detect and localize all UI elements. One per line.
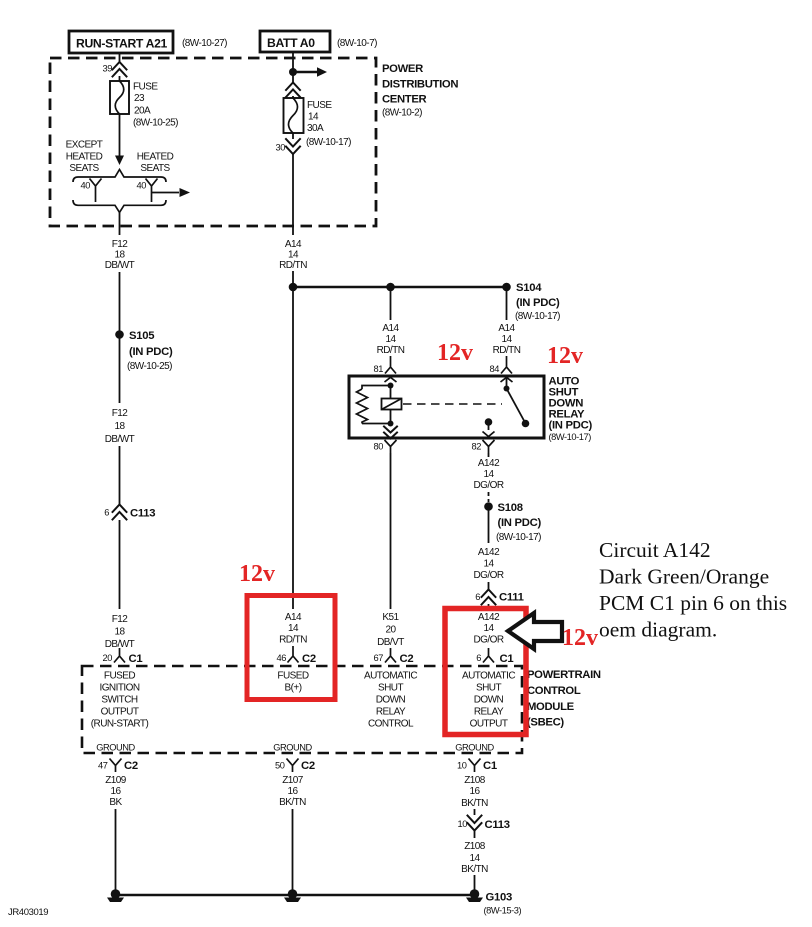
svg-text:10: 10 xyxy=(457,761,467,771)
svg-text:BATT A0: BATT A0 xyxy=(267,36,315,50)
svg-text:DOWN: DOWN xyxy=(474,695,504,706)
svg-text:RELAY: RELAY xyxy=(376,707,406,718)
pcm ground pin 50 C2 xyxy=(275,759,315,773)
pcm pin 67 C2 xyxy=(374,648,414,665)
svg-text:30A: 30A xyxy=(307,123,324,134)
svg-text:(SBEC): (SBEC) xyxy=(527,717,564,729)
fuse 14 xyxy=(284,98,352,148)
A142 wire label xyxy=(473,458,503,491)
svg-text:14: 14 xyxy=(483,469,494,480)
svg-text:(8W-10-25): (8W-10-25) xyxy=(127,361,172,372)
svg-text:C1: C1 xyxy=(500,653,514,665)
power distribution center dashed box xyxy=(50,58,458,226)
svg-text:40: 40 xyxy=(137,181,147,191)
resistor zigzag xyxy=(357,389,368,424)
svg-text:16: 16 xyxy=(110,786,121,797)
svg-text:SHUT: SHUT xyxy=(378,683,403,694)
svg-text:6: 6 xyxy=(104,508,109,518)
svg-text:GROUND: GROUND xyxy=(273,743,312,753)
svg-text:6: 6 xyxy=(475,592,480,602)
pcm pin 6 C1 xyxy=(476,648,513,665)
relay name label xyxy=(549,376,593,443)
ground wire col2 xyxy=(292,809,294,895)
resistor branch bottom wire xyxy=(362,423,391,425)
wire batt col down to pcm xyxy=(292,287,294,609)
connector C113 pin 6 xyxy=(104,505,155,520)
svg-text:16: 16 xyxy=(287,786,298,797)
svg-text:C2: C2 xyxy=(400,653,414,665)
svg-text:10: 10 xyxy=(458,819,468,829)
svg-text:F12: F12 xyxy=(112,408,129,419)
svg-text:FUSE: FUSE xyxy=(307,100,332,111)
pcm label col2 xyxy=(277,671,308,694)
svg-text:C113: C113 xyxy=(485,819,510,831)
branch arrow batt xyxy=(293,71,317,73)
svg-text:C111: C111 xyxy=(499,592,524,604)
svg-text:(IN PDC): (IN PDC) xyxy=(516,297,560,309)
ground point mid xyxy=(284,889,301,902)
svg-text:20A: 20A xyxy=(134,106,151,117)
svg-text:HEATED: HEATED xyxy=(66,152,103,163)
wire pin82 down xyxy=(488,453,490,457)
svg-text:20: 20 xyxy=(385,625,396,636)
svg-text:14: 14 xyxy=(483,559,494,570)
svg-text:C113: C113 xyxy=(130,508,155,520)
svg-text:RD/TN: RD/TN xyxy=(377,345,405,356)
svg-text:RELAY: RELAY xyxy=(474,707,504,718)
ground bus wire xyxy=(116,894,475,896)
svg-text:DB/WT: DB/WT xyxy=(105,260,135,271)
svg-text:(RUN-START): (RUN-START) xyxy=(91,719,149,730)
svg-text:CENTER: CENTER xyxy=(382,94,427,106)
pcm label col4 xyxy=(462,671,515,730)
svg-text:(8W-10-7): (8W-10-7) xyxy=(337,38,377,49)
resistor branch top wire xyxy=(362,386,391,390)
svg-text:OUTPUT: OUTPUT xyxy=(101,707,139,718)
svg-text:(8W-10-17): (8W-10-17) xyxy=(306,137,351,148)
pcm dashed box xyxy=(82,666,522,753)
svg-text:23: 23 xyxy=(134,93,145,104)
svg-text:(8W-10-17): (8W-10-17) xyxy=(549,432,592,442)
svg-text:14: 14 xyxy=(308,112,319,123)
pcm label col3 xyxy=(364,671,417,730)
svg-text:S105: S105 xyxy=(129,330,154,342)
svg-text:DB/WT: DB/WT xyxy=(105,434,135,445)
horizontal bus wire xyxy=(293,286,507,288)
relay coil node top xyxy=(388,383,394,389)
svg-text:(8W-10-17): (8W-10-17) xyxy=(496,532,541,543)
svg-text:18: 18 xyxy=(114,421,125,432)
Z107 wire label xyxy=(279,775,306,808)
svg-text:6: 6 xyxy=(476,653,481,663)
svg-text:BK: BK xyxy=(109,797,122,808)
fuse 23 xyxy=(110,81,178,129)
svg-text:K51: K51 xyxy=(382,612,399,623)
svg-text:POWER: POWER xyxy=(382,63,423,75)
wire run-start to pdc xyxy=(119,53,121,62)
ground wire col3 top xyxy=(474,809,476,815)
svg-text:Circuit A142: Circuit A142 xyxy=(599,538,711,562)
svg-text:(8W-10-17): (8W-10-17) xyxy=(515,311,560,322)
svg-text:18: 18 xyxy=(114,627,125,638)
svg-text:GROUND: GROUND xyxy=(96,743,135,753)
svg-text:81: 81 xyxy=(374,364,384,374)
junction dot A xyxy=(289,283,298,292)
svg-text:14: 14 xyxy=(385,334,396,345)
A14 wire label red box xyxy=(279,612,307,646)
svg-text:GROUND: GROUND xyxy=(455,743,494,753)
svg-text:18: 18 xyxy=(114,250,125,261)
svg-text:S108: S108 xyxy=(498,502,523,514)
svg-text:82: 82 xyxy=(472,442,482,452)
svg-text:12v: 12v xyxy=(547,343,583,369)
top brace xyxy=(73,170,166,183)
pcm ground pin 47 C2 xyxy=(98,759,138,773)
A142 wire label 3 xyxy=(473,612,503,646)
svg-text:RD/TN: RD/TN xyxy=(493,345,521,356)
svg-text:S104: S104 xyxy=(516,282,542,294)
wire chevron to fuse xyxy=(119,76,121,81)
A14 wire label xyxy=(279,239,307,271)
svg-text:MODULE: MODULE xyxy=(527,701,575,713)
svg-text:DOWN: DOWN xyxy=(376,695,406,706)
svg-text:oem diagram.: oem diagram. xyxy=(599,618,717,642)
svg-text:F12: F12 xyxy=(112,239,129,250)
connector C113 pin 10 xyxy=(458,816,510,832)
connector box BATT A0 xyxy=(260,31,377,52)
svg-text:C2: C2 xyxy=(302,653,316,665)
pcm name label xyxy=(527,669,601,729)
relay switch common node xyxy=(504,386,510,392)
svg-text:RD/TN: RD/TN xyxy=(279,260,307,271)
wire brace down out of pdc xyxy=(119,212,121,235)
svg-text:(8W-15-3): (8W-15-3) xyxy=(484,906,522,916)
svg-text:46: 46 xyxy=(277,653,287,663)
svg-text:47: 47 xyxy=(98,761,108,771)
connector box RUN-START A21 xyxy=(69,31,227,53)
svg-text:(IN PDC): (IN PDC) xyxy=(129,346,173,358)
connector chevrons batt xyxy=(286,83,300,98)
svg-text:IGNITION: IGNITION xyxy=(99,683,139,694)
svg-text:C2: C2 xyxy=(301,760,315,772)
red annotation box asd output xyxy=(445,609,526,735)
svg-text:POWERTRAIN: POWERTRAIN xyxy=(527,669,601,681)
svg-text:(IN PDC): (IN PDC) xyxy=(549,420,593,432)
pcm pin 46 C2 xyxy=(277,646,316,665)
wire pin80 down xyxy=(390,453,392,609)
svg-text:12v: 12v xyxy=(562,625,598,651)
relay pin81 arrowhead xyxy=(385,377,397,382)
svg-text:B(+): B(+) xyxy=(285,683,302,694)
svg-text:CONTROL: CONTROL xyxy=(368,719,414,730)
Z109 wire label xyxy=(105,775,127,808)
wire bus to relay pin81 xyxy=(390,287,392,320)
F12 wire label xyxy=(105,239,135,271)
svg-text:CONTROL: CONTROL xyxy=(527,685,581,697)
svg-text:DG/OR: DG/OR xyxy=(473,570,503,581)
ground wire col1 xyxy=(115,809,117,895)
svg-text:AUTOMATIC: AUTOMATIC xyxy=(364,671,417,682)
svg-text:SEATS: SEATS xyxy=(140,163,170,174)
relay switch blade xyxy=(507,389,525,422)
svg-text:RD/TN: RD/TN xyxy=(279,635,307,646)
relay pin84 arrowhead xyxy=(501,377,513,382)
relay coil node bottom xyxy=(388,421,394,427)
svg-text:(IN PDC): (IN PDC) xyxy=(498,517,542,529)
svg-text:C2: C2 xyxy=(124,760,138,772)
svg-text:DISTRIBUTION: DISTRIBUTION xyxy=(382,79,458,91)
svg-text:SEATS: SEATS xyxy=(69,163,99,174)
svg-text:67: 67 xyxy=(374,653,384,663)
svg-text:A14: A14 xyxy=(498,323,515,334)
junction dot B xyxy=(386,283,395,292)
relay box xyxy=(349,376,544,438)
svg-text:14: 14 xyxy=(483,623,494,634)
A14 label col4 xyxy=(493,323,521,356)
svg-text:FUSED: FUSED xyxy=(277,671,308,682)
K51 wire label xyxy=(377,612,404,648)
svg-text:HEATED: HEATED xyxy=(137,152,174,163)
svg-text:PCM C1 pin 6 on this: PCM C1 pin 6 on this xyxy=(599,591,787,615)
svg-text:(8W-10-25): (8W-10-25) xyxy=(133,118,178,129)
svg-text:F12: F12 xyxy=(112,614,129,625)
connector chevrons 39 xyxy=(113,62,127,77)
splice S104 xyxy=(502,282,560,322)
wire f12 to s105 xyxy=(119,272,121,403)
svg-text:EXCEPT: EXCEPT xyxy=(66,140,103,151)
svg-text:JR403019: JR403019 xyxy=(8,907,48,918)
svg-text:BK/TN: BK/TN xyxy=(461,798,488,809)
svg-text:20: 20 xyxy=(103,653,113,663)
svg-text:OUTPUT: OUTPUT xyxy=(470,719,508,730)
svg-text:FUSED: FUSED xyxy=(104,671,135,682)
relay pin82 node xyxy=(485,418,493,426)
svg-text:(8W-10-27): (8W-10-27) xyxy=(182,38,227,49)
annotation note text xyxy=(599,538,787,642)
svg-text:A142: A142 xyxy=(478,547,500,558)
A14 label col3 xyxy=(377,323,405,356)
wire bus to relay pin84 xyxy=(506,287,508,320)
ground point left xyxy=(107,889,124,902)
splice S105 xyxy=(115,330,173,372)
splice S108 xyxy=(484,502,541,543)
connector C111 pin 6 xyxy=(475,590,523,605)
svg-text:SHUT: SHUT xyxy=(476,683,501,694)
svg-text:39: 39 xyxy=(103,64,113,74)
Z108 wire label 2 xyxy=(461,841,488,875)
wire to s108 xyxy=(488,492,490,502)
svg-text:50: 50 xyxy=(275,761,285,771)
wire fuse14 down out of pdc xyxy=(292,154,294,235)
Z108 wire label xyxy=(461,775,488,809)
svg-text:DG/OR: DG/OR xyxy=(473,480,503,491)
ground point G103 xyxy=(466,889,521,915)
svg-text:14: 14 xyxy=(288,250,299,261)
svg-text:40: 40 xyxy=(81,181,91,191)
svg-text:FUSE: FUSE xyxy=(133,82,158,93)
svg-text:RUN-START A21: RUN-START A21 xyxy=(76,37,167,51)
svg-text:30: 30 xyxy=(276,143,286,153)
svg-text:G103: G103 xyxy=(486,892,512,904)
svg-text:Z108: Z108 xyxy=(464,841,486,852)
wire batt down xyxy=(292,52,294,83)
F12 wire label 3 xyxy=(105,614,135,650)
svg-text:16: 16 xyxy=(469,786,480,797)
svg-text:SWITCH: SWITCH xyxy=(101,695,137,706)
relay actuation dashed line xyxy=(403,403,502,405)
svg-text:Z108: Z108 xyxy=(464,775,486,786)
svg-text:Dark Green/Orange: Dark Green/Orange xyxy=(599,565,769,589)
pcm label col1 xyxy=(91,671,149,730)
black annotation arrow xyxy=(508,613,562,649)
pcm ground pin 10 C1 xyxy=(457,759,497,773)
wire label to bus xyxy=(292,271,294,287)
svg-text:DB/VT: DB/VT xyxy=(377,637,404,648)
F12 wire label 2 xyxy=(105,408,135,445)
svg-text:A142: A142 xyxy=(478,612,500,623)
svg-text:14: 14 xyxy=(469,853,480,864)
svg-text:C1: C1 xyxy=(129,653,143,665)
svg-text:12v: 12v xyxy=(239,561,275,587)
svg-text:80: 80 xyxy=(374,442,384,452)
svg-text:12v: 12v xyxy=(437,340,473,366)
svg-text:C1: C1 xyxy=(483,760,497,772)
relay coil element xyxy=(382,386,402,424)
svg-text:(8W-10-2): (8W-10-2) xyxy=(382,108,422,119)
svg-text:AUTOMATIC: AUTOMATIC xyxy=(462,671,515,682)
svg-text:BK/TN: BK/TN xyxy=(279,797,306,808)
branch arrow right xyxy=(152,192,180,194)
junction dot batt xyxy=(289,68,297,76)
wire to C113 xyxy=(119,446,121,504)
svg-text:14: 14 xyxy=(501,334,512,345)
wire c113 down xyxy=(119,520,121,609)
A142 wire label 2 xyxy=(473,547,503,581)
svg-text:A14: A14 xyxy=(382,323,399,334)
pcm pin 20 C1 xyxy=(103,648,143,665)
svg-text:84: 84 xyxy=(490,364,500,374)
relay pin80 chevrons down xyxy=(390,424,392,427)
svg-text:Z109: Z109 xyxy=(105,775,127,786)
svg-text:14: 14 xyxy=(288,623,299,634)
svg-text:A14: A14 xyxy=(285,612,302,623)
svg-text:DG/OR: DG/OR xyxy=(473,635,503,646)
bottom brace xyxy=(73,200,166,212)
svg-text:A142: A142 xyxy=(478,458,500,469)
red annotation box fused B+ xyxy=(247,596,335,700)
svg-text:A14: A14 xyxy=(285,239,302,250)
svg-text:Z107: Z107 xyxy=(282,775,304,786)
wire fuse23 down with arrowhead xyxy=(119,114,121,156)
svg-text:BK/TN: BK/TN xyxy=(461,864,488,875)
